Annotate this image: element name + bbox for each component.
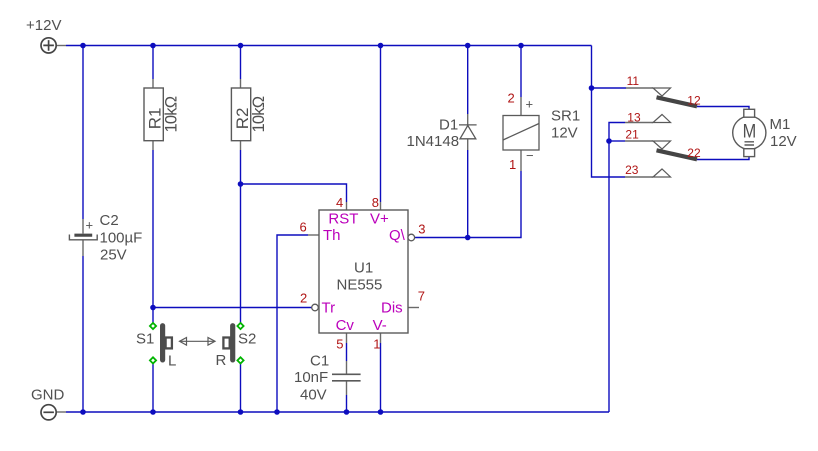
wire Cv to C1 <box>346 343 348 361</box>
svg-text:12V: 12V <box>770 133 797 150</box>
wire Q output net <box>415 171 521 238</box>
node RST / R2 <box>238 181 244 187</box>
wire R2 to S2 top <box>240 150 242 323</box>
svg-text:V-: V- <box>373 317 387 334</box>
U1 pin Cv stub <box>346 333 348 343</box>
svg-text:+: + <box>526 97 534 112</box>
node top bus / R1 <box>150 43 156 49</box>
U1 pin numbers <box>300 195 426 352</box>
U1 pin V- stub <box>380 333 382 343</box>
wire pin21 feed <box>609 140 625 142</box>
label C2 values <box>86 212 143 264</box>
wire RST net <box>241 184 347 202</box>
node gnd riser / pin21 <box>606 138 612 144</box>
wire pin12 to motor <box>697 107 749 110</box>
svg-text:1: 1 <box>509 157 516 172</box>
+12V terminal lead <box>57 45 66 47</box>
C1 leads <box>346 361 348 395</box>
wire pin22 to motor <box>697 157 749 160</box>
wire right ground riser to contacts <box>609 123 625 413</box>
resistor R1 <box>144 88 180 141</box>
svg-text:Th: Th <box>323 227 341 244</box>
node gnd / S2 <box>238 409 244 415</box>
svg-text:12V: 12V <box>551 125 578 142</box>
label C1 values <box>294 353 329 404</box>
svg-text:S2: S2 <box>238 331 256 348</box>
relay coil SR1 <box>503 116 539 151</box>
svg-text:6: 6 <box>300 219 307 234</box>
svg-text:−: − <box>526 148 534 163</box>
terminal +12V <box>41 38 56 53</box>
pin21 stub <box>625 140 653 142</box>
svg-text:5: 5 <box>336 337 343 352</box>
svg-text:13: 13 <box>627 110 641 124</box>
wire C2 branch x=83 upper <box>82 46 84 220</box>
diode D1 1N4148 <box>459 125 477 139</box>
svg-text:Tr: Tr <box>322 299 336 316</box>
motor M1 <box>733 109 766 156</box>
node gnd / S1 <box>150 409 156 415</box>
relay contact arm 21-22 <box>657 150 698 159</box>
node top bus / D1 <box>465 43 471 49</box>
svg-text:Cv: Cv <box>336 317 355 334</box>
svg-text:Dis: Dis <box>381 299 403 316</box>
svg-text:10kΩ: 10kΩ <box>162 96 180 132</box>
svg-text:11: 11 <box>627 74 640 88</box>
svg-text:M: M <box>743 122 757 143</box>
wire V+ net <box>380 46 382 203</box>
wire R1 to S1 and Tr junction <box>152 150 154 323</box>
wire S1 bottom to ground <box>152 364 154 413</box>
C2 leads <box>82 219 84 256</box>
relay contact pin11 triangle <box>653 88 671 96</box>
wire pin11 feed <box>592 87 627 89</box>
wire C2 branch x=83 lower <box>82 256 84 412</box>
svg-text:7: 7 <box>418 288 425 303</box>
svg-text:S1: S1 <box>136 331 154 348</box>
relay contact pin23 triangle <box>653 169 671 177</box>
svg-text:RST: RST <box>328 210 358 227</box>
wire top +12V bus <box>66 45 592 47</box>
svg-text:V+: V+ <box>370 210 389 227</box>
node top bus / V+ <box>378 43 384 49</box>
capacitor C1 <box>332 374 361 381</box>
svg-text:GND: GND <box>31 387 65 404</box>
pin23 stub <box>625 176 653 178</box>
node gnd / C2 <box>80 409 86 415</box>
svg-text:+12V: +12V <box>26 17 61 34</box>
wire D1 bottom <box>467 150 469 238</box>
svg-text:10nF: 10nF <box>294 369 328 386</box>
U1 pin V+ stub <box>380 202 382 210</box>
svg-text:10kΩ: 10kΩ <box>250 96 268 132</box>
svg-text:SR1: SR1 <box>551 108 580 125</box>
svg-text:D1: D1 <box>439 116 458 133</box>
wire D1 top <box>467 46 469 115</box>
svg-text:C1: C1 <box>310 353 329 370</box>
pin11 stub <box>626 87 653 89</box>
wire ground bus <box>66 411 609 413</box>
svg-text:2: 2 <box>300 291 307 306</box>
svg-text:1N4148: 1N4148 <box>407 133 460 150</box>
GND terminal lead <box>57 411 66 413</box>
node top bus / SR1 <box>518 43 524 49</box>
node Tr / S1 <box>150 305 156 311</box>
label SR1 <box>526 97 581 164</box>
node Q / D1 <box>465 235 471 241</box>
svg-text:L: L <box>168 353 176 370</box>
svg-text:8: 8 <box>372 195 379 210</box>
node top bus / C2 <box>80 43 86 49</box>
node gnd / C1 <box>344 409 350 415</box>
label D1 <box>407 116 460 150</box>
op-amp style IC U1 NE555 <box>319 210 408 333</box>
node gnd / V- <box>378 409 384 415</box>
svg-text:R: R <box>216 352 227 369</box>
relay contact arm 11-12 <box>657 97 698 106</box>
svg-text:2: 2 <box>508 91 515 106</box>
label M1 <box>770 116 797 150</box>
U1 pin Tr inversion circle <box>312 304 319 311</box>
svg-text:21: 21 <box>625 128 639 142</box>
node +12V / pin11 <box>589 85 595 91</box>
wire C1 to ground <box>346 395 348 412</box>
wire S2 bottom to ground <box>240 364 242 413</box>
pushbutton S2 <box>223 323 243 364</box>
svg-text:25V: 25V <box>100 247 127 264</box>
node gnd / Th <box>274 409 280 415</box>
U1 pin Q inversion circle <box>408 234 415 241</box>
contact pin numbers <box>625 74 701 177</box>
wire Tr net <box>153 307 312 309</box>
svg-text:U1: U1 <box>354 259 373 276</box>
capacitor C2 <box>69 235 97 240</box>
svg-text:C2: C2 <box>100 212 119 229</box>
R2 leads <box>240 79 242 150</box>
U1 pin Th stub <box>308 234 319 236</box>
wire V- to ground <box>380 343 382 412</box>
gray pin stubs and leads <box>57 46 653 413</box>
svg-text:1: 1 <box>373 337 380 352</box>
pin13 stub <box>625 122 653 124</box>
wire Th net <box>277 235 308 412</box>
U1 pin names <box>322 210 406 334</box>
pushbutton S1 <box>150 323 172 364</box>
wire SR1 coil pin2 <box>520 46 522 98</box>
svg-text:M1: M1 <box>770 116 791 133</box>
node top bus / R2 <box>238 43 244 49</box>
SR1 coil leads <box>520 97 522 171</box>
wire right contacts feed down <box>592 46 626 178</box>
R1 leads <box>152 79 154 150</box>
wire R2 branch x=240.5 top <box>240 46 242 80</box>
svg-text:3: 3 <box>418 221 425 236</box>
actuate arrow between S1 and S2 <box>180 338 216 346</box>
svg-text:Q\: Q\ <box>389 227 406 244</box>
svg-text:40V: 40V <box>300 387 327 404</box>
U1 pin Dis stub <box>408 307 419 309</box>
U1 pin RST stub <box>346 202 348 210</box>
svg-text:4: 4 <box>336 195 343 210</box>
svg-text:22: 22 <box>687 146 701 160</box>
SR1 coil pin numbers <box>508 91 517 173</box>
U1 labels <box>337 259 383 293</box>
svg-text:23: 23 <box>625 163 639 177</box>
svg-text:+: + <box>86 218 94 233</box>
svg-text:NE555: NE555 <box>337 277 383 294</box>
svg-text:12: 12 <box>687 93 701 107</box>
relay contact pin13 triangle <box>653 115 671 123</box>
resistor R2 <box>231 88 267 141</box>
terminal GND <box>41 405 56 420</box>
svg-text:100µF: 100µF <box>100 230 143 247</box>
D1 leads <box>467 114 469 150</box>
wire R1 branch x=153 top <box>152 46 154 80</box>
relay contact pin21 triangle <box>653 141 671 149</box>
